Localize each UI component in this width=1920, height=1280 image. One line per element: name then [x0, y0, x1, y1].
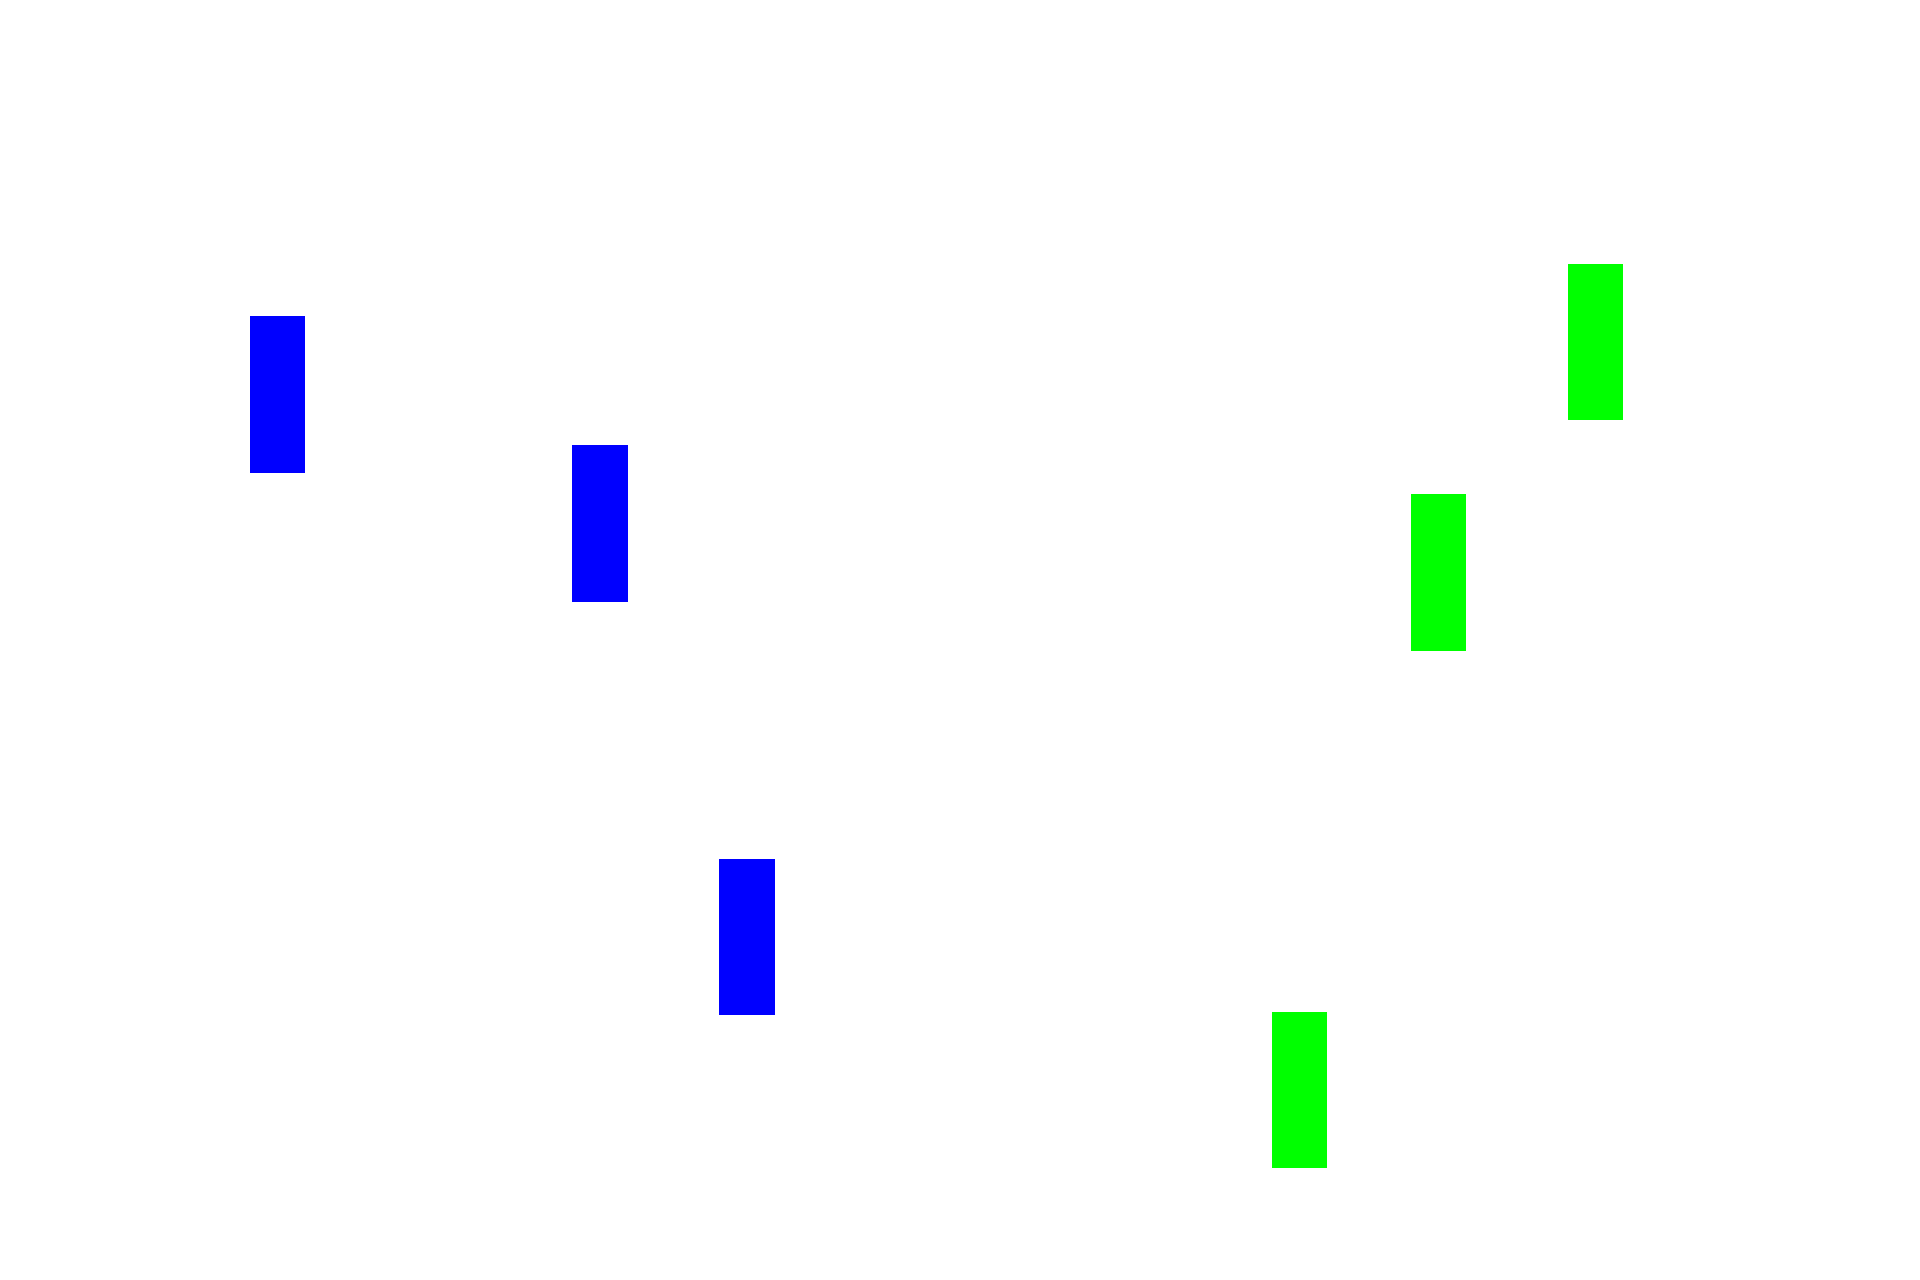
blue bar 1 (top left) [250, 316, 305, 473]
green bar 2 (middle right) [1411, 494, 1466, 651]
green bar 1 (top right) [1568, 264, 1623, 420]
blue bar 2 (upper middle-left) [572, 445, 628, 602]
blue bar 3 (lower middle) [719, 859, 775, 1015]
green bar 3 (bottom right) [1272, 1012, 1327, 1168]
